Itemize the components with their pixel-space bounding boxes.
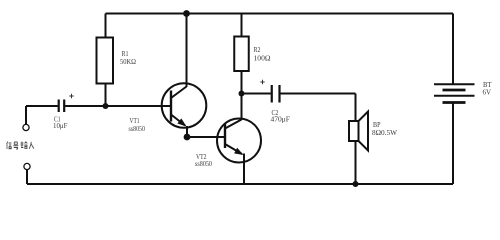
- wire VT1 emitter down: [186, 126, 188, 137]
- wire C2 to speaker: [280, 93, 355, 95]
- wire C2 left segment: [242, 93, 271, 95]
- wire bottom rail: [27, 183, 453, 185]
- label 信号输入: [7, 142, 34, 150]
- 输: [21, 142, 28, 150]
- svg-text:100Ω: 100Ω: [254, 54, 271, 63]
- 号: [13, 142, 18, 149]
- wire R1 top lead: [105, 14, 107, 39]
- wire R2 top lead: [241, 14, 243, 38]
- node top rail / VT1 collector: [183, 10, 190, 17]
- resistor R1: [97, 38, 114, 84]
- wire speaker bottom lead: [355, 141, 357, 184]
- speaker BP: [349, 121, 359, 141]
- svg-text:470μF: 470μF: [271, 115, 291, 124]
- VT1 emitter diagonal with arrow: [171, 115, 185, 126]
- resistor R2: [234, 37, 249, 72]
- transistor VT2: [217, 119, 261, 163]
- VT2 base bar: [224, 124, 226, 148]
- node VT2 collector / C2 tap: [239, 91, 245, 97]
- svg-text:ss8050: ss8050: [195, 159, 212, 168]
- wire top rail: [106, 13, 454, 15]
- svg-text:8Ω0.5W: 8Ω0.5W: [372, 128, 398, 137]
- input terminal bottom: [24, 163, 30, 169]
- 信: [7, 142, 12, 150]
- wire battery top lead: [452, 14, 454, 85]
- node junction R1/C1/base: [103, 103, 109, 109]
- VT1 base bar: [170, 91, 172, 122]
- transistor VT1: [162, 83, 207, 128]
- wire R1 bottom lead: [105, 84, 107, 107]
- svg-text:6V: 6V: [483, 88, 492, 97]
- wire VT1 emitter to VT2 base: [187, 136, 225, 138]
- wire VT2 emitter down: [243, 154, 245, 185]
- wire input left segment: [26, 105, 58, 107]
- wire C1 to VT1 base: [65, 105, 171, 107]
- capacitor C2: [271, 85, 273, 103]
- wire battery bottom lead: [452, 103, 454, 185]
- C2 plus sign: [260, 81, 264, 83]
- VT2 collector diagonal: [225, 120, 242, 129]
- wire speaker top lead: [355, 94, 357, 122]
- svg-text:ss8050: ss8050: [129, 124, 146, 133]
- 入: [29, 142, 34, 149]
- node speaker / bottom rail: [353, 181, 359, 187]
- input terminal top: [25, 106, 27, 125]
- capacitor C1: [58, 100, 60, 113]
- C1 plus sign: [69, 95, 73, 97]
- svg-text:50KΩ: 50KΩ: [120, 57, 136, 66]
- VT1 collector diagonal: [171, 87, 187, 99]
- wire VT1 collector up: [186, 14, 188, 88]
- VT2 emitter diagonal with arrow: [225, 144, 242, 154]
- node VT1 emitter / VT2 base: [184, 134, 191, 141]
- wire VT2 collector up to R2: [241, 71, 243, 120]
- svg-text:10μF: 10μF: [53, 121, 68, 130]
- battery BT plates: [434, 83, 475, 85]
